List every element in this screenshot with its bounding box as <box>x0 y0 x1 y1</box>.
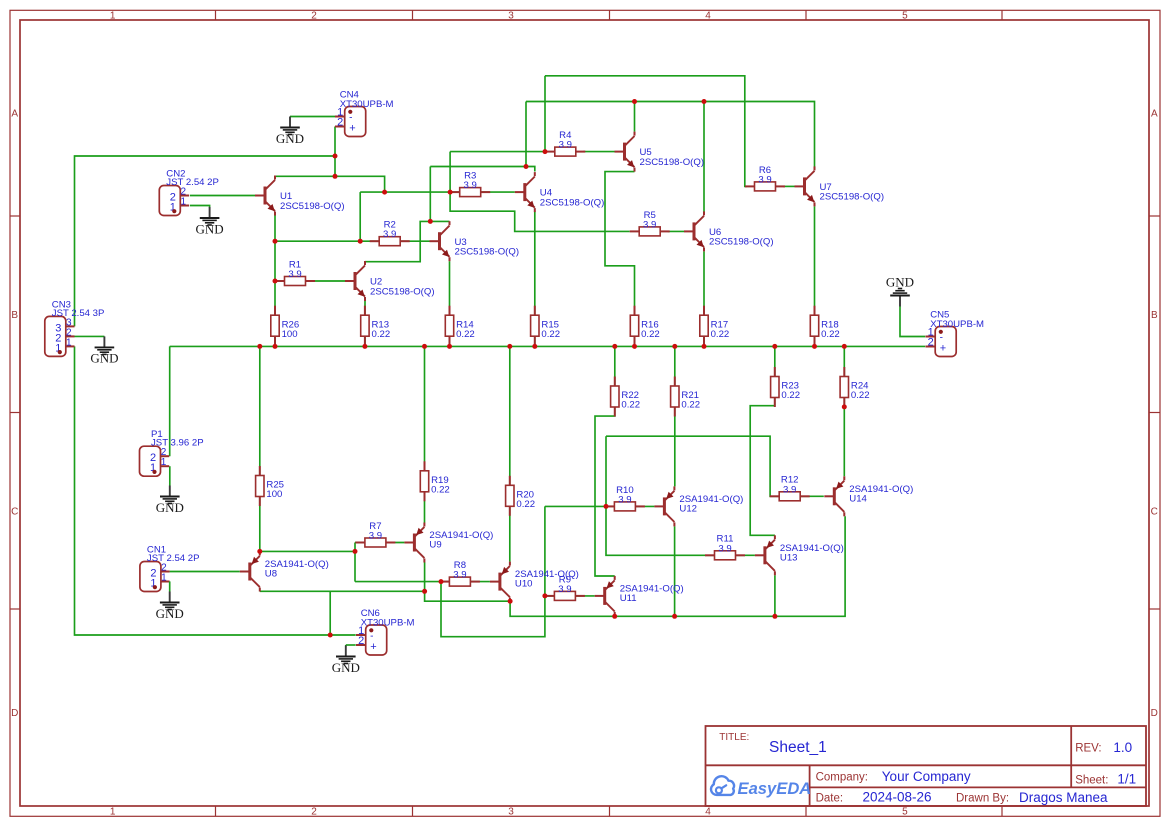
wire R10-row up <box>605 436 607 506</box>
svg-text:3.9: 3.9 <box>718 543 731 554</box>
transistor U1 <box>255 176 345 216</box>
svg-text:U10: U10 <box>515 579 533 590</box>
wire bottom output rail to U14 collector <box>510 516 845 616</box>
svg-text:U14: U14 <box>849 493 867 504</box>
svg-text:3.9: 3.9 <box>369 531 382 542</box>
junction <box>273 344 278 349</box>
svg-text:0.22: 0.22 <box>821 329 840 340</box>
transistor U7 <box>795 166 885 206</box>
wire bias rail to R12 <box>606 436 824 496</box>
wire bus to R20/U10 emitter <box>509 346 511 561</box>
svg-text:3.9: 3.9 <box>558 584 571 595</box>
svg-text:2: 2 <box>337 117 343 129</box>
svg-text:GND: GND <box>886 275 914 290</box>
junction <box>428 219 433 224</box>
wire U1 emitter to R26/bus <box>274 216 276 347</box>
ground at CN1 <box>156 592 184 621</box>
svg-text:3.9: 3.9 <box>559 140 572 151</box>
wire U1 collector rail <box>275 176 385 192</box>
svg-text:+: + <box>940 342 946 354</box>
wire CN3 pin1 down to CN6 pin1 <box>75 346 356 635</box>
junction <box>333 174 338 179</box>
wire bus to R23/U13 emitter jog <box>750 346 775 535</box>
wire R10 row <box>545 505 655 507</box>
resistor R14 <box>445 306 474 346</box>
transistor U2 <box>345 261 435 301</box>
svg-text:JST 3.96 2P: JST 3.96 2P <box>151 438 204 449</box>
resistor R12 <box>770 475 810 501</box>
svg-text:+: + <box>370 641 376 653</box>
resistor R26 <box>271 306 299 346</box>
transistor U8 <box>240 552 329 592</box>
svg-text:3.9: 3.9 <box>383 229 396 240</box>
resistor R23 <box>771 367 800 407</box>
wire R6 to U7 base <box>783 185 795 187</box>
svg-text:3.9: 3.9 <box>288 269 301 280</box>
wire up from U3-collector rail <box>429 167 431 222</box>
ground at P1 <box>156 486 184 515</box>
resistor R1 <box>275 259 315 285</box>
wire U5 collector <box>634 102 636 132</box>
wire CN4 pin1 to GND <box>290 116 335 118</box>
wire R8-left jog to R10 row <box>441 506 545 636</box>
transistor U10 <box>490 562 579 602</box>
svg-text:C: C <box>1151 506 1158 517</box>
junction <box>604 504 609 509</box>
svg-text:JST 2.54 3P: JST 2.54 3P <box>52 308 105 319</box>
junction <box>543 149 548 154</box>
svg-text:3.9: 3.9 <box>464 180 477 191</box>
wire bus to R21/U12 emitter <box>674 346 676 486</box>
transistor U12 <box>654 486 743 526</box>
svg-text:2024-08-26: 2024-08-26 <box>863 790 932 805</box>
resistor R7 <box>355 521 395 547</box>
junction <box>353 549 358 554</box>
wire U2 emitter to R13 <box>364 301 366 346</box>
svg-text:Sheet:: Sheet: <box>1075 775 1108 787</box>
resistor R5 <box>630 210 670 236</box>
wire R4 row <box>450 151 547 153</box>
transistor U3 <box>430 221 520 261</box>
junction <box>672 344 677 349</box>
wire R9 row <box>545 595 595 597</box>
wire R2 row <box>275 240 430 242</box>
connector CN2 <box>159 169 219 216</box>
wire R3-row jog down to R5 row <box>450 192 630 231</box>
svg-text:1: 1 <box>161 457 167 468</box>
svg-text:0.22: 0.22 <box>541 329 560 340</box>
wire CN2 pin1 to GND <box>190 206 210 208</box>
junction <box>702 344 707 349</box>
junction <box>422 344 427 349</box>
svg-text:2: 2 <box>311 10 317 21</box>
wire output bus <box>170 345 926 347</box>
resistor R15 <box>531 306 560 346</box>
junction <box>362 344 367 349</box>
junction <box>273 239 278 244</box>
resistor R13 <box>361 306 390 346</box>
transistor U11 <box>595 576 684 616</box>
junction <box>257 549 262 554</box>
svg-text:TITLE:: TITLE: <box>719 732 749 743</box>
wire R7 row <box>355 542 404 544</box>
junction <box>632 99 637 104</box>
wire U3 emitter to R14 <box>449 261 451 346</box>
transistor U14 <box>824 476 913 516</box>
wire R5 to U6 base <box>668 230 684 232</box>
wire CN4 pin2 down <box>334 127 336 177</box>
junction <box>772 614 777 619</box>
connector P1 <box>140 429 204 476</box>
resistor R4 <box>545 130 585 156</box>
svg-text:3.9: 3.9 <box>758 174 771 185</box>
wire U13 collector <box>774 575 776 616</box>
svg-text:4: 4 <box>705 10 711 21</box>
svg-text:3.9: 3.9 <box>453 570 466 581</box>
wire bus to P1 pin2 <box>169 346 171 456</box>
wire CN1 pin2 to U8 base <box>170 571 240 573</box>
resistor R8 <box>440 560 480 586</box>
wire U2 collector to U3 collector <box>365 221 450 261</box>
svg-text:4: 4 <box>705 806 711 817</box>
svg-text:2: 2 <box>358 635 364 647</box>
transistor U6 <box>684 211 774 251</box>
junction <box>507 344 512 349</box>
wire R4-row to R3-row <box>449 152 451 193</box>
wire R11 row <box>606 506 755 555</box>
junction <box>333 154 338 159</box>
svg-text:1: 1 <box>181 197 187 208</box>
junction <box>842 344 847 349</box>
wire R3 row <box>360 191 515 193</box>
svg-text:D: D <box>11 708 18 719</box>
resistor R19 <box>420 461 449 501</box>
svg-text:2SC5198-O(Q): 2SC5198-O(Q) <box>455 247 520 258</box>
wire GND to CN5 pin1 <box>900 307 925 337</box>
svg-text:Date:: Date: <box>816 792 844 804</box>
svg-text:U12: U12 <box>679 504 697 515</box>
svg-text:GND: GND <box>332 660 360 675</box>
svg-text:Sheet_1: Sheet_1 <box>769 739 827 756</box>
svg-text:D: D <box>1151 708 1158 719</box>
junction <box>702 99 707 104</box>
resistor R24 <box>840 367 869 407</box>
svg-text:3.9: 3.9 <box>643 219 656 230</box>
svg-text:GND: GND <box>90 351 118 366</box>
svg-text:JST 2.54 2P: JST 2.54 2P <box>147 553 200 564</box>
wire U5 emitter jog to R16 <box>605 172 635 347</box>
svg-text:1: 1 <box>110 10 116 21</box>
wire top rail 2 to U7 collector <box>526 102 815 167</box>
svg-text:2SC5198-O(Q): 2SC5198-O(Q) <box>540 197 605 208</box>
svg-text:0.22: 0.22 <box>711 329 730 340</box>
svg-text:XT30UPB-M: XT30UPB-M <box>340 99 394 110</box>
wire U6 collector <box>703 102 705 212</box>
wire top-left rail to CN3 pin3 <box>75 156 336 326</box>
svg-text:1/1: 1/1 <box>1117 772 1136 787</box>
connector CN4 <box>335 90 394 137</box>
resistor R9 <box>545 574 585 600</box>
junction <box>842 404 847 409</box>
svg-text:100: 100 <box>282 329 298 340</box>
svg-text:0.22: 0.22 <box>621 400 640 411</box>
ground at CN6 <box>332 646 360 675</box>
svg-text:5: 5 <box>902 806 908 817</box>
svg-text:3.9: 3.9 <box>618 494 631 505</box>
svg-text:3.9: 3.9 <box>783 484 796 495</box>
wire up to top rail 2 <box>525 102 527 167</box>
resistor R17 <box>700 306 729 346</box>
svg-text:2SC5198-O(Q): 2SC5198-O(Q) <box>370 286 435 297</box>
junction <box>422 589 427 594</box>
junction <box>612 614 617 619</box>
svg-text:U13: U13 <box>780 552 798 563</box>
connector CN5 <box>926 310 985 357</box>
ground at CN5 <box>886 275 914 307</box>
wire U12 collector <box>674 526 676 616</box>
wire U9 collector rail <box>425 563 511 602</box>
junction <box>508 599 513 604</box>
connector CN6 <box>356 608 415 655</box>
svg-text:XT30UPB-M: XT30UPB-M <box>361 617 415 628</box>
svg-text:A: A <box>1151 109 1158 120</box>
connector CN1 <box>140 545 200 592</box>
wire CN6 pin2 to GND <box>346 644 356 646</box>
resistor R18 <box>810 306 839 346</box>
junction <box>612 344 617 349</box>
resistor R11 <box>705 534 745 560</box>
svg-text:0.22: 0.22 <box>781 390 800 401</box>
svg-text:1: 1 <box>66 337 72 348</box>
wire R1 row <box>275 280 345 282</box>
wire up from CN6 rail <box>329 591 331 635</box>
svg-text:C: C <box>11 506 18 517</box>
wire bus to R25/U8 emitter <box>259 346 261 551</box>
resistor R3 <box>450 171 490 197</box>
resistor R22 <box>611 377 640 417</box>
ground at CN2 <box>196 207 224 236</box>
svg-text:JST 2.54 2P: JST 2.54 2P <box>166 177 219 188</box>
svg-text:0.22: 0.22 <box>372 329 391 340</box>
wire R8 row <box>355 581 490 583</box>
resistor R2 <box>370 220 410 246</box>
svg-text:GND: GND <box>276 131 304 146</box>
wire R4 to U5 base <box>583 151 614 153</box>
svg-text:2SC5198-O(Q): 2SC5198-O(Q) <box>640 157 705 168</box>
svg-text:100: 100 <box>266 489 282 500</box>
junction <box>524 164 529 169</box>
svg-text:0.22: 0.22 <box>641 329 660 340</box>
junction <box>672 614 677 619</box>
transistor U5 <box>615 132 705 172</box>
wire down to R4 left pin <box>544 76 546 152</box>
svg-text:0.22: 0.22 <box>456 329 475 340</box>
wire bus to R24/U14 emitter <box>843 346 845 476</box>
junction <box>632 344 637 349</box>
wire bus to R22/U11 emitter jog <box>595 346 615 576</box>
junction <box>812 344 817 349</box>
wire CN1 pin1 to GND <box>169 581 171 591</box>
svg-text:Your Company: Your Company <box>882 769 971 784</box>
svg-text:2: 2 <box>928 337 934 349</box>
resistor R21 <box>671 377 700 417</box>
svg-text:REV:: REV: <box>1075 743 1101 755</box>
connector CN3 <box>45 299 105 356</box>
svg-text:Company:: Company: <box>816 772 868 784</box>
transistor U13 <box>755 535 844 575</box>
wire P1 pin1 to GND <box>169 466 171 485</box>
svg-text:XT30UPB-M: XT30UPB-M <box>930 319 984 330</box>
svg-text:0.22: 0.22 <box>681 400 700 411</box>
resistor R10 <box>605 485 645 511</box>
svg-text:1: 1 <box>110 806 116 817</box>
wire CN3 pin2 to GND <box>74 335 104 337</box>
wire U7 emitter to R18 <box>814 206 816 346</box>
svg-text:Dragos Manea: Dragos Manea <box>1019 790 1108 805</box>
svg-text:5: 5 <box>902 10 908 21</box>
wire bus to R19/U9 emitter <box>424 346 426 522</box>
svg-text:GND: GND <box>156 500 184 515</box>
resistor R20 <box>506 476 535 516</box>
svg-text:3: 3 <box>508 806 514 817</box>
svg-text:0.22: 0.22 <box>516 499 535 510</box>
svg-text:U11: U11 <box>620 593 637 604</box>
svg-text:GND: GND <box>156 606 184 621</box>
junction <box>358 239 363 244</box>
wire to U4 collector <box>430 167 535 172</box>
svg-text:EasyEDA: EasyEDA <box>738 779 812 798</box>
wire U6 emitter to R17 <box>703 252 705 347</box>
resistor R25 <box>256 466 284 506</box>
junction <box>448 190 453 195</box>
ground at CN3 <box>90 336 118 365</box>
svg-text:1.0: 1.0 <box>1113 740 1132 755</box>
svg-text:3: 3 <box>508 10 514 21</box>
junction <box>772 344 777 349</box>
ground at CN4 <box>276 117 304 146</box>
wire U8 emitter row <box>260 550 355 552</box>
svg-text:0.22: 0.22 <box>431 485 450 496</box>
svg-text:0.22: 0.22 <box>851 390 870 401</box>
svg-text:GND: GND <box>196 221 224 236</box>
svg-text:2SC5198-O(Q): 2SC5198-O(Q) <box>820 192 885 203</box>
wire CN6 pin2 GND stub <box>345 645 347 647</box>
svg-text:1: 1 <box>161 573 167 584</box>
resistor R6 <box>745 165 785 191</box>
EasyEDA logo <box>711 776 811 798</box>
junction <box>447 344 452 349</box>
junction <box>542 593 547 598</box>
junction <box>257 344 262 349</box>
wire CN2 pin2 to U1 base <box>190 195 255 197</box>
wire U4 emitter to R15 <box>534 212 536 347</box>
resistor R16 <box>630 306 659 346</box>
transistor U4 <box>515 172 605 212</box>
svg-text:2SC5198-O(Q): 2SC5198-O(Q) <box>280 201 345 212</box>
junction <box>328 633 333 638</box>
junction <box>439 579 444 584</box>
svg-text:Drawn By:: Drawn By: <box>956 792 1009 804</box>
svg-text:U9: U9 <box>429 540 441 551</box>
svg-text:A: A <box>11 109 18 120</box>
svg-text:B: B <box>11 310 18 321</box>
wire top rail 1 to R6 <box>545 76 747 187</box>
title block <box>706 726 1147 806</box>
junction <box>273 279 278 284</box>
wire U8 collector rail <box>260 590 425 592</box>
svg-text:B: B <box>1151 310 1158 321</box>
junction <box>532 344 537 349</box>
transistor U9 <box>404 523 493 563</box>
wire R3-row to R2-row <box>359 192 361 241</box>
svg-text:+: + <box>349 122 355 134</box>
svg-text:2SC5198-O(Q): 2SC5198-O(Q) <box>709 237 774 248</box>
svg-text:U8: U8 <box>265 569 277 580</box>
wire R7-left down to R8 row <box>354 543 356 582</box>
junction <box>382 190 387 195</box>
svg-text:2: 2 <box>311 806 317 817</box>
